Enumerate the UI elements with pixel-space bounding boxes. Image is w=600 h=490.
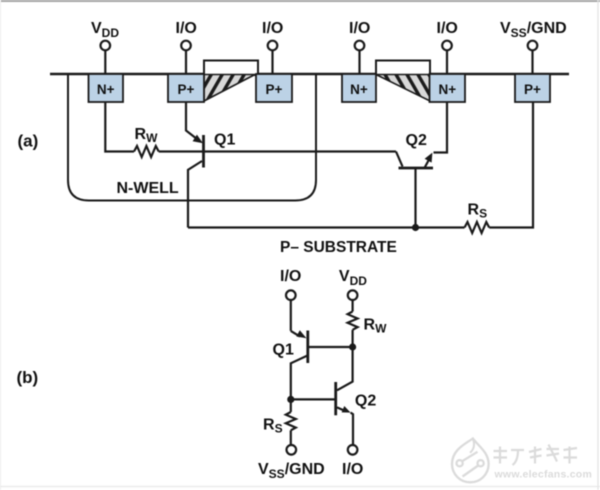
label RW (b)	[364, 317, 388, 336]
watermark url	[494, 469, 593, 481]
resistor RS (b)	[286, 399, 296, 445]
svg-text:VSS/GND: VSS/GND	[258, 461, 325, 481]
svg-text:I/O: I/O	[349, 20, 370, 37]
transistor Q2 (lateral NPN, a)	[396, 102, 447, 228]
terminal I/O 4	[437, 20, 458, 73]
svg-text:VSS/GND: VSS/GND	[500, 20, 567, 40]
node: substrate node dot (b)	[287, 396, 294, 403]
label P-SUBSTRATE	[280, 239, 397, 256]
wire: silicon surface line	[50, 73, 569, 75]
node: well node dot (b)	[349, 343, 356, 350]
wire: well node to Q2 collector	[337, 347, 353, 390]
svg-text:N+: N+	[350, 82, 368, 97]
watermark brand glyphs	[494, 445, 578, 466]
label Q1 (a)	[214, 132, 235, 149]
wire: n-well base line from RW through Q1 to Q2 collector	[159, 150, 396, 152]
svg-text:www.elecfans.com: www.elecfans.com	[494, 469, 593, 481]
svg-text:Q2: Q2	[355, 393, 376, 410]
resistor RW (b)	[348, 312, 358, 348]
terminal I/O (b bottom)	[342, 445, 363, 478]
wire: p-substrate rail	[188, 226, 465, 228]
svg-text:N+: N+	[97, 82, 115, 97]
svg-text:P+: P+	[266, 82, 283, 97]
label (b)	[17, 368, 39, 387]
label RW (a)	[135, 126, 159, 145]
svg-text:I/O: I/O	[176, 20, 197, 37]
svg-text:P– SUBSTRATE: P– SUBSTRATE	[280, 239, 397, 256]
svg-text:Q1: Q1	[214, 132, 235, 149]
label N-WELL	[117, 180, 179, 197]
transistor Q1 (PNP, b)	[291, 330, 353, 399]
svg-text:P+: P+	[524, 82, 541, 97]
diffusion P+ (I/O source)	[168, 74, 204, 102]
svg-text:Q2: Q2	[406, 132, 427, 149]
terminal VDD (b)	[339, 268, 367, 312]
terminal I/O 1	[176, 20, 197, 73]
n-well boundary	[68, 74, 316, 201]
svg-text:I/O: I/O	[437, 20, 458, 37]
terminal VSS/GND (b)	[258, 445, 325, 481]
transistor Q2 (NPN, b)	[291, 382, 353, 445]
gate structure 2 (white poly rectangle)	[376, 61, 430, 76]
label (a)	[18, 132, 39, 151]
wire: N+ tie down to RW	[105, 102, 134, 152]
terminal I/O 2	[262, 20, 283, 73]
svg-text:I/O: I/O	[280, 268, 301, 285]
diffusion P+ (substrate tie)	[515, 74, 550, 102]
label Q2 (b)	[355, 393, 376, 410]
diffusion P+ (I/O drain)	[256, 74, 292, 102]
svg-text:P+: P+	[178, 82, 195, 97]
svg-text:Q1: Q1	[273, 342, 294, 359]
svg-text:I/O: I/O	[342, 461, 363, 478]
label RS (b)	[263, 417, 283, 436]
watermark logo	[452, 439, 489, 483]
gate oxide hatched wedge 1	[204, 75, 255, 102]
svg-text:(a): (a)	[18, 132, 39, 151]
label RS (a)	[468, 202, 488, 221]
terminal VDD	[91, 20, 119, 73]
label Q2 (a)	[406, 132, 427, 149]
diffusion N+ (VDD well tie)	[89, 74, 124, 102]
resistor RS (a)	[465, 222, 490, 233]
gate structure 1 (white poly rectangle)	[204, 61, 258, 76]
diffusion N+ (I/O drain)	[342, 74, 376, 102]
transistor Q1 (vertical PNP, a)	[186, 102, 204, 228]
svg-text:I/O: I/O	[262, 20, 283, 37]
terminal I/O (b top)	[280, 268, 301, 331]
terminal VSS/GND	[500, 20, 567, 73]
diffusion N+ (I/O source)	[430, 74, 466, 102]
wire: substrate rail to P+ tie	[489, 102, 533, 228]
svg-text:N+: N+	[438, 82, 456, 97]
node: substrate junction dot	[412, 224, 419, 231]
terminal I/O 3	[349, 20, 370, 73]
resistor RW (a)	[134, 146, 159, 157]
svg-text:(b): (b)	[17, 368, 39, 387]
svg-text:N-WELL: N-WELL	[117, 180, 179, 197]
label Q1 (b)	[273, 342, 294, 359]
gate oxide hatched wedge 2	[376, 75, 430, 102]
